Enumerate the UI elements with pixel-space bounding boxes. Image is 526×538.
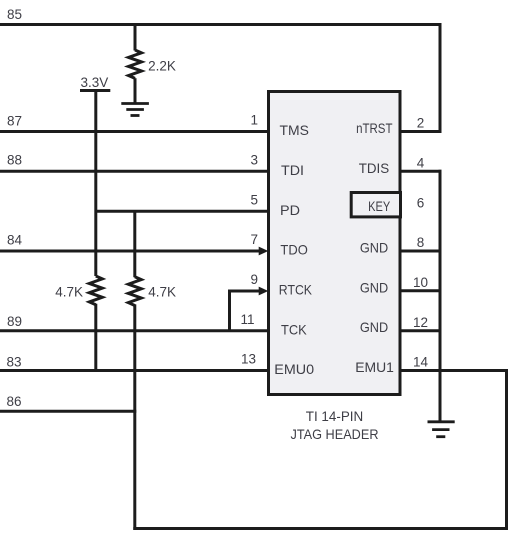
svg-text:PD: PD: [280, 202, 300, 218]
wire PD branch vertical to 4.7K: [133, 211, 136, 277]
svg-text:85: 85: [7, 7, 22, 22]
svg-text:88: 88: [7, 153, 22, 168]
resistor R 4.7K left: [89, 276, 102, 305]
wire pin 4 stub: [400, 170, 442, 173]
svg-text:EMU1: EMU1: [355, 359, 394, 375]
wire 84 to TDO: [0, 250, 260, 253]
svg-text:13: 13: [241, 352, 256, 367]
ground GND bottom-right: [428, 422, 455, 437]
svg-text:TMS: TMS: [280, 122, 309, 138]
arrow into TDO pin 7: [259, 247, 269, 256]
svg-text:RTCK: RTCK: [279, 281, 313, 297]
svg-text:JTAG HEADER: JTAG HEADER: [291, 426, 379, 442]
svg-text:83: 83: [7, 354, 22, 369]
svg-text:2: 2: [417, 116, 425, 131]
wire 4.7K right bottom lead to bottom loop: [133, 304, 136, 530]
svg-text:5: 5: [250, 192, 258, 207]
wire 3.3V to PD: [96, 210, 267, 213]
svg-text:GND: GND: [360, 279, 388, 295]
svg-text:GND: GND: [360, 240, 388, 256]
wire GND rail vertical right: [439, 170, 442, 421]
svg-text:EMU0: EMU0: [274, 361, 314, 377]
svg-text:KEY: KEY: [368, 198, 391, 214]
svg-text:7: 7: [250, 232, 258, 247]
svg-text:3: 3: [250, 153, 258, 168]
IC U1 JTAG header body: [269, 92, 401, 395]
wire 4.7K left bottom lead to 83: [94, 304, 97, 372]
svg-text:87: 87: [7, 114, 22, 129]
wire pin 10 stub: [400, 289, 442, 292]
svg-text:TDO: TDO: [280, 242, 307, 258]
svg-text:9: 9: [250, 272, 258, 287]
svg-text:89: 89: [7, 314, 22, 329]
ground GND top-left: [121, 104, 149, 116]
svg-text:1: 1: [250, 113, 258, 128]
svg-text:8: 8: [417, 235, 425, 250]
svg-text:nTRST: nTRST: [356, 120, 393, 136]
svg-text:12: 12: [413, 315, 428, 330]
wire 83 to EMU0: [0, 369, 267, 372]
wire 3.3V rail vertical: [94, 91, 97, 277]
wire pin 14 EMU1 horizontal: [400, 369, 508, 372]
wire 2.2K bottom lead: [134, 78, 137, 103]
svg-text:GND: GND: [360, 319, 388, 335]
resistor R 2.2K: [129, 50, 142, 78]
svg-text:14: 14: [413, 355, 429, 370]
wire 85 horizontal top: [0, 23, 442, 26]
wire EMU1 loop bottom: [133, 527, 508, 530]
svg-text:4.7K: 4.7K: [148, 284, 176, 299]
wire 88 to TDI: [0, 170, 267, 173]
svg-text:84: 84: [7, 233, 23, 248]
svg-text:TI 14-PIN: TI 14-PIN: [306, 408, 364, 424]
KEY box: [351, 193, 400, 217]
wire RTCK branch horizontal: [228, 290, 260, 293]
wire 87 to TMS: [0, 130, 267, 133]
svg-text:86: 86: [7, 394, 22, 409]
svg-text:2.2K: 2.2K: [148, 59, 176, 74]
wire 2.2K top lead: [134, 25, 137, 51]
wire EMU1 loop right vertical: [505, 369, 508, 530]
svg-text:11: 11: [240, 312, 254, 327]
svg-text:6: 6: [417, 195, 425, 210]
svg-text:4: 4: [417, 155, 425, 170]
svg-text:4.7K: 4.7K: [55, 284, 83, 299]
svg-text:TCK: TCK: [281, 321, 307, 337]
wire RTCK branch vertical: [228, 291, 231, 331]
wire pin 12 stub: [400, 329, 442, 332]
power 3.3V bar: [80, 89, 110, 92]
arrow into RTCK pin 9: [259, 287, 269, 296]
svg-text:TDIS: TDIS: [359, 160, 390, 176]
svg-text:3.3V: 3.3V: [81, 75, 109, 90]
wire 86: [0, 410, 136, 413]
wire pin 8 stub: [400, 250, 442, 253]
svg-text:TDI: TDI: [281, 162, 304, 178]
wire 85 to nTRST vertical: [439, 23, 442, 133]
wire 89 to TCK: [0, 329, 267, 332]
svg-text:10: 10: [413, 275, 428, 290]
resistor R 4.7K right: [128, 277, 141, 306]
wire pin 2 stub: [400, 130, 442, 133]
